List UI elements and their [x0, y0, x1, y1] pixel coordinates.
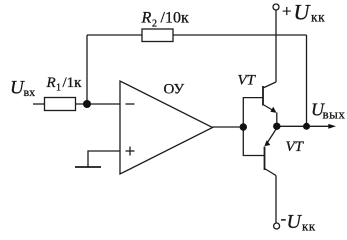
output arrow [328, 124, 336, 129]
op-amp inverting input minus sign [126, 103, 135, 105]
svg-text:2: 2 [152, 19, 157, 30]
wire emitter to output node [276, 113, 278, 127]
transistor VT2 collector [265, 169, 277, 176]
wire feedback top left segment [87, 34, 142, 36]
resistor R2 [142, 29, 173, 42]
node J1 inverting input junction [83, 100, 91, 108]
svg-text:ОУ: ОУ [164, 82, 185, 98]
transistor VT1 collector [263, 82, 276, 88]
wire input stub [33, 103, 45, 105]
wire feedback right vertical [306, 35, 308, 126]
transistor VT2 base bar [264, 147, 266, 171]
transistor VT1 base bar [262, 86, 264, 106]
svg-text:вх: вх [24, 85, 36, 99]
wire feedback left vertical [86, 35, 88, 104]
wire feedback top right segment [173, 34, 307, 36]
wire output [277, 125, 329, 127]
svg-text:R: R [141, 10, 152, 27]
terminal +Ukk [273, 4, 279, 10]
ground [75, 166, 101, 168]
terminal -Ukk [274, 223, 280, 229]
svg-text:кк: кк [302, 219, 316, 234]
op-amp U1 triangle [120, 81, 213, 174]
wire base bus bottom [243, 127, 264, 156]
wire collector to -Ukk [275, 176, 277, 223]
node J4 emitters output junction [273, 123, 280, 130]
svg-text:/10к: /10к [161, 10, 189, 27]
transistor VT2 emitter [266, 128, 277, 146]
wire non-inverting input to ground [88, 151, 120, 167]
wire R1 to op-amp inverting input [76, 103, 121, 105]
svg-text:U: U [294, 0, 312, 25]
op-amp non-inverting input plus sign [126, 150, 135, 152]
svg-text:VT: VT [286, 139, 305, 155]
svg-text:+: + [282, 2, 292, 21]
svg-text:1: 1 [56, 83, 61, 94]
svg-text:вых: вых [323, 107, 346, 122]
svg-text:U: U [287, 211, 303, 233]
transistor VT1 emitter [263, 105, 275, 112]
resistor R1 [45, 98, 76, 111]
node J2 base junction [240, 123, 247, 130]
transistor VT1 emitter arrow [270, 107, 276, 113]
svg-text:VT: VT [238, 73, 257, 89]
svg-text:R: R [46, 75, 56, 91]
wire op-amp output [213, 126, 244, 128]
svg-text:кк: кк [311, 10, 325, 25]
wire base bus top [243, 98, 263, 127]
svg-text:/1к: /1к [63, 75, 83, 91]
node J3 feedback output junction [303, 123, 310, 130]
wire collector to +Ukk [275, 10, 277, 82]
transistor VT2 emitter arrow [264, 140, 270, 146]
